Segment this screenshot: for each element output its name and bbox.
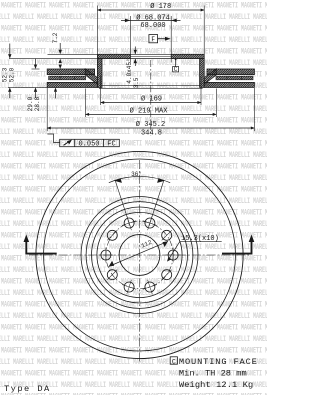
svg-text:0.050: 0.050: [78, 140, 99, 148]
vane right in vent channel: [216, 76, 253, 80]
svg-text:Ø 219 MAX: Ø 219 MAX: [130, 106, 169, 115]
legend datum C box: [170, 357, 177, 364]
circle r48: [92, 207, 188, 303]
svg-text:52.3: 52.3: [2, 67, 9, 82]
svg-text:F: F: [151, 36, 155, 43]
friction ring right top plate (hatched): [207, 69, 254, 75]
bolt hole 5: [145, 282, 155, 292]
section cut arrow left: [26, 241, 56, 255]
svg-text:29.0: 29.0: [27, 96, 34, 111]
vent end strut left (hatched): [85, 69, 97, 85]
svg-text:C: C: [172, 358, 176, 365]
hat plate left (hatched section): [97, 54, 130, 58]
bolt hole 9: [107, 230, 117, 240]
dimension 52.3/52.0 arrows: [9, 44, 11, 55]
bolt hole 1: [145, 218, 155, 228]
outer circle Ø345.2: [36, 151, 243, 358]
hat wall right (hatched): [200, 59, 205, 88]
vane left in vent channel: [49, 76, 86, 80]
dimension Ø169: [100, 76, 102, 105]
svg-text:7.2: 7.2: [52, 32, 59, 43]
svg-text:FC: FC: [107, 140, 115, 148]
svg-text:36°: 36°: [131, 171, 142, 178]
friction ring left bottom plate (hatched): [47, 82, 97, 87]
bolt hole 8: [101, 250, 111, 260]
feature control frame leader: [47, 134, 59, 143]
dimension 29.0/28.8 arrows: [35, 59, 37, 65]
dimension Ø219 MAX: [85, 89, 87, 118]
svg-text:C: C: [174, 66, 178, 73]
friction ring left top plate (hatched): [47, 69, 94, 75]
hat plate right (hatched section): [171, 54, 204, 58]
dimension Ø178 line: [97, 9, 204, 11]
bolt hole 10: [124, 218, 134, 228]
bolt hole 4: [162, 270, 172, 280]
bolt hole 7: [107, 270, 117, 280]
dimension Ø345.2/344.8: [46, 88, 48, 131]
ring bottom extension line to left: [8, 86, 47, 88]
slashes on alternate holes: [162, 230, 172, 240]
circle r58.5: [81, 197, 198, 314]
dimension 7.2 arrows: [59, 43, 61, 50]
center bore Ø68: [119, 235, 160, 276]
10 bolt holes Ø15.3: [98, 216, 180, 294]
dimension Ø68.074/68.000 line with outside arrows: [121, 19, 181, 21]
svg-text:68.000: 68.000: [140, 22, 165, 30]
svg-text:344.8: 344.8: [141, 130, 162, 138]
far-side ring edges seen through hat void: [102, 84, 201, 86]
hat wall left (hatched): [97, 59, 102, 88]
svg-text:Weight 12.1 Kg: Weight 12.1 Kg: [179, 380, 253, 390]
datum C box with leader: [173, 67, 179, 72]
hat top extension line to left: [48, 53, 98, 55]
vertical centerline: [139, 160, 141, 362]
svg-text:Min. TH 28 mm: Min. TH 28 mm: [179, 369, 247, 379]
datum target F box with leader: [149, 35, 158, 43]
svg-text:52.0: 52.0: [9, 67, 16, 82]
svg-text:Ø 178: Ø 178: [150, 2, 171, 11]
runout symbol arrow: [64, 141, 71, 146]
112 bolt circle diameter diagonal: [109, 241, 168, 266]
svg-text:Ø 68.074: Ø 68.074: [136, 13, 170, 22]
hat circle Ø178: [86, 202, 193, 309]
svg-text:Type DA: Type DA: [4, 384, 51, 394]
vent end strut right (hatched): [204, 69, 216, 85]
horizontal centerline: [29, 254, 251, 256]
dimension Ø68 extension lines: [129, 16, 131, 54]
circle r42.6: [97, 212, 182, 297]
bolt hole 6: [124, 282, 134, 292]
small up arrow under ring: [54, 87, 57, 91]
friction ring right bottom plate (hatched): [204, 82, 254, 87]
svg-text:Ø 169: Ø 169: [141, 94, 162, 103]
pad sweep circle Ø320: [44, 159, 236, 351]
feature control frame runout 0.050 FC: [60, 139, 120, 146]
svg-text:MOUNTING FACE: MOUNTING FACE: [179, 357, 258, 367]
section cut arrow right: [222, 241, 252, 255]
mounting face extension line to left: [9, 58, 97, 60]
36 degree dimension: [109, 176, 170, 226]
centerline of section (dash-dot): [150, 60, 152, 136]
bolt hole 3: [168, 250, 178, 260]
svg-text:28.8: 28.8: [34, 96, 41, 111]
bolt hole 2: [162, 230, 172, 240]
svg-text:Ø 345.2: Ø 345.2: [136, 120, 165, 129]
bore chamfer dimension arrows at center: [134, 47, 136, 55]
bore far-side lines across hole: [130, 53, 171, 55]
bolt circle Ø112 dash-dot: [106, 221, 173, 288]
dimension Ø178 extension lines: [96, 6, 98, 55]
svg-text:3.5: 3.5: [133, 77, 140, 88]
